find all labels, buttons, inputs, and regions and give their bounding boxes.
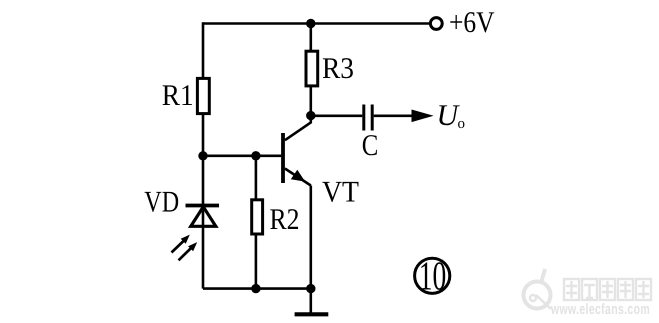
junction dot bottom emitter: [306, 284, 315, 293]
label Uo: [437, 99, 466, 132]
junction dot top rail: [306, 19, 315, 28]
watermark logo: [524, 269, 552, 309]
resistor R2: [252, 200, 263, 234]
svg-text:R3: R3: [322, 52, 354, 85]
ground: [295, 289, 329, 315]
svg-text:VD: VD: [144, 185, 179, 218]
light arrow upper: [172, 235, 190, 253]
watermark CJK text: [564, 279, 651, 300]
junction dot base left: [198, 151, 207, 160]
svg-text:+6V: +6V: [449, 6, 495, 39]
svg-text:10: 10: [419, 253, 447, 299]
capacitor C: [364, 105, 372, 131]
wire emitter rail: [309, 186, 312, 289]
wire base: [203, 155, 281, 158]
light arrow lower: [179, 242, 198, 260]
output arrow: [412, 110, 434, 123]
wire left rail: [202, 22, 205, 288]
node figure number 10: [415, 253, 450, 299]
wire top supply rail: [203, 22, 430, 25]
wire R2 branch: [255, 156, 258, 289]
wire bottom rail: [203, 287, 311, 290]
svg-text:C: C: [362, 129, 379, 162]
svg-text:www.elecfans.com: www.elecfans.com: [550, 301, 650, 318]
wire collector to capacitor: [311, 115, 363, 118]
wire R3 branch: [309, 24, 312, 116]
node collector junction: [306, 111, 315, 120]
svg-text:o: o: [458, 116, 466, 132]
resistor R1: [197, 78, 209, 113]
photodiode VD: [186, 206, 220, 227]
terminal +6V: [430, 18, 442, 30]
junction dot base R2 branch: [251, 151, 260, 160]
svg-text:R2: R2: [270, 203, 300, 236]
svg-text:VT: VT: [322, 176, 359, 209]
resistor R3: [306, 51, 318, 86]
transistor VT: [283, 116, 311, 186]
junction dot bottom R2: [251, 284, 260, 293]
wire capacitor to output: [374, 115, 413, 118]
svg-text:R1: R1: [162, 79, 194, 112]
